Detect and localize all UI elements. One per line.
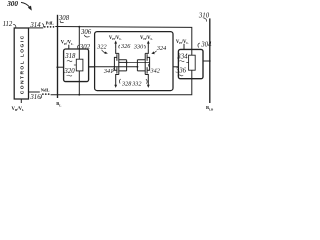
svg-text:308: 308 bbox=[58, 15, 70, 22]
svg-text:318: 318 bbox=[64, 53, 76, 60]
supply stub into driver 304 bbox=[183, 44, 185, 50]
junction dot NdL to driver 302 bbox=[78, 94, 80, 96]
svg-text:342: 342 bbox=[150, 68, 160, 75]
svg-text:324: 324 bbox=[156, 45, 166, 52]
nmos 332 gate bar bbox=[146, 67, 148, 73]
underline squiggle 318 bbox=[67, 60, 72, 63]
supply stub under control logic bbox=[20, 99, 22, 103]
wire from PdL down into driver 302 bbox=[78, 27, 80, 60]
bit line BLB vertical bbox=[209, 18, 211, 103]
nmos 332 pulldown arrow bbox=[145, 75, 148, 86]
leader arrow 324 bbox=[153, 51, 157, 54]
wire driver 304 to BLB bbox=[203, 60, 210, 62]
svg-text:CONTROL LOGIC: CONTROL LOGIC bbox=[19, 34, 25, 94]
svg-text:VH/VL: VH/VL bbox=[140, 36, 153, 41]
driver box 304 bbox=[178, 49, 203, 78]
wire NdL left segment bbox=[29, 91, 40, 93]
leader hook 316 bbox=[40, 95, 42, 99]
nmos 328 gate bar bbox=[116, 67, 118, 73]
underline squiggle 320 bbox=[67, 74, 72, 77]
wire BL to driver 302 bbox=[57, 66, 63, 68]
transistor body in driver 304 bbox=[189, 55, 196, 70]
svg-text:320: 320 bbox=[63, 68, 75, 75]
transistor leads in driver 304 bbox=[191, 49, 193, 79]
svg-text:336: 336 bbox=[175, 68, 187, 75]
drain-source hooks left inverter bbox=[119, 60, 127, 71]
wire driver 302 to latch box bbox=[89, 66, 95, 68]
supply stub into driver 302 bbox=[68, 45, 70, 49]
junction dot on BL bbox=[56, 66, 58, 68]
svg-text:341: 341 bbox=[103, 68, 113, 75]
svg-text:314: 314 bbox=[29, 22, 41, 29]
svg-text:NdL: NdL bbox=[41, 88, 50, 93]
leader hook 330 bbox=[144, 45, 145, 49]
gate stub in driver 302 bbox=[74, 64, 76, 66]
control logic block bbox=[14, 28, 28, 99]
svg-text:330: 330 bbox=[133, 43, 144, 50]
bus break dots PdL bbox=[44, 26, 46, 28]
svg-text:VH/VL: VH/VL bbox=[12, 107, 25, 112]
leader hook 342 bbox=[149, 63, 150, 67]
leader hook 308 bbox=[60, 21, 63, 23]
svg-text:322: 322 bbox=[96, 43, 106, 50]
svg-text:306: 306 bbox=[80, 29, 92, 36]
svg-text:328: 328 bbox=[121, 80, 132, 87]
svg-text:316: 316 bbox=[29, 94, 41, 101]
leader hook 304 bbox=[198, 43, 200, 48]
latch box 306 bbox=[95, 32, 173, 91]
svg-text:VH/VL: VH/VL bbox=[61, 41, 74, 46]
svg-text:BLB: BLB bbox=[206, 105, 213, 111]
svg-text:332: 332 bbox=[131, 80, 141, 87]
supply arrow right inverter bbox=[147, 43, 149, 48]
pmos 326 bbox=[116, 49, 119, 54]
brace for 314 bbox=[42, 24, 44, 28]
junction dot PdL to driver 302 bbox=[78, 26, 80, 28]
leader hook 112 bbox=[13, 24, 16, 28]
svg-text:VH/VL: VH/VL bbox=[109, 36, 122, 41]
leader hook 306 bbox=[84, 35, 89, 37]
gate line left inverter bbox=[114, 57, 117, 70]
wire PdL right segment to node of driver 304 bbox=[55, 27, 192, 50]
pmos 330 bbox=[145, 49, 148, 54]
bus break dots NdL bbox=[42, 93, 44, 95]
supply arrow left inverter bbox=[115, 43, 117, 48]
wire PdL left segment bbox=[29, 27, 44, 29]
underline squiggle 334 bbox=[179, 60, 184, 63]
node wire 341 output bbox=[119, 61, 127, 63]
gate line right inverter bbox=[147, 57, 150, 70]
leader arrow 322 bbox=[102, 50, 107, 53]
junction dot on BLB bbox=[209, 60, 211, 62]
leader hook 341 bbox=[112, 68, 114, 72]
gate stub in driver 304 bbox=[186, 62, 188, 64]
wire from NdL up into driver 302 bbox=[78, 71, 80, 95]
transistor body in driver 302 bbox=[76, 59, 83, 71]
leader hook 326 bbox=[119, 45, 120, 49]
svg-text:300: 300 bbox=[6, 0, 18, 8]
svg-text:PdL: PdL bbox=[46, 21, 54, 26]
leader hook 328 bbox=[119, 79, 120, 84]
leader hook 332 bbox=[146, 79, 147, 84]
nmos 328 pulldown arrow bbox=[116, 75, 119, 86]
drain-source hooks right inverter bbox=[137, 60, 145, 71]
underline squiggle 336 bbox=[178, 74, 183, 77]
svg-text:334: 334 bbox=[176, 53, 188, 60]
bit line BL vertical bbox=[57, 15, 59, 98]
svg-text:BL: BL bbox=[56, 101, 61, 107]
svg-text:VH/VL: VH/VL bbox=[176, 40, 189, 45]
leader hook 302 bbox=[77, 45, 79, 49]
wire latch box to driver 304 bbox=[173, 66, 178, 68]
svg-text:326: 326 bbox=[120, 43, 131, 50]
leader arrow for 300 bbox=[21, 2, 30, 7]
node wire 342 to left gates and driver 302 bbox=[89, 66, 138, 68]
driver box 302 bbox=[64, 49, 89, 82]
cross wire left output to right gates bbox=[127, 61, 150, 63]
svg-text:112: 112 bbox=[3, 21, 13, 28]
leader hook 310 bbox=[204, 18, 207, 21]
wire NdL right segment to driver 304 bottom bbox=[51, 79, 192, 95]
